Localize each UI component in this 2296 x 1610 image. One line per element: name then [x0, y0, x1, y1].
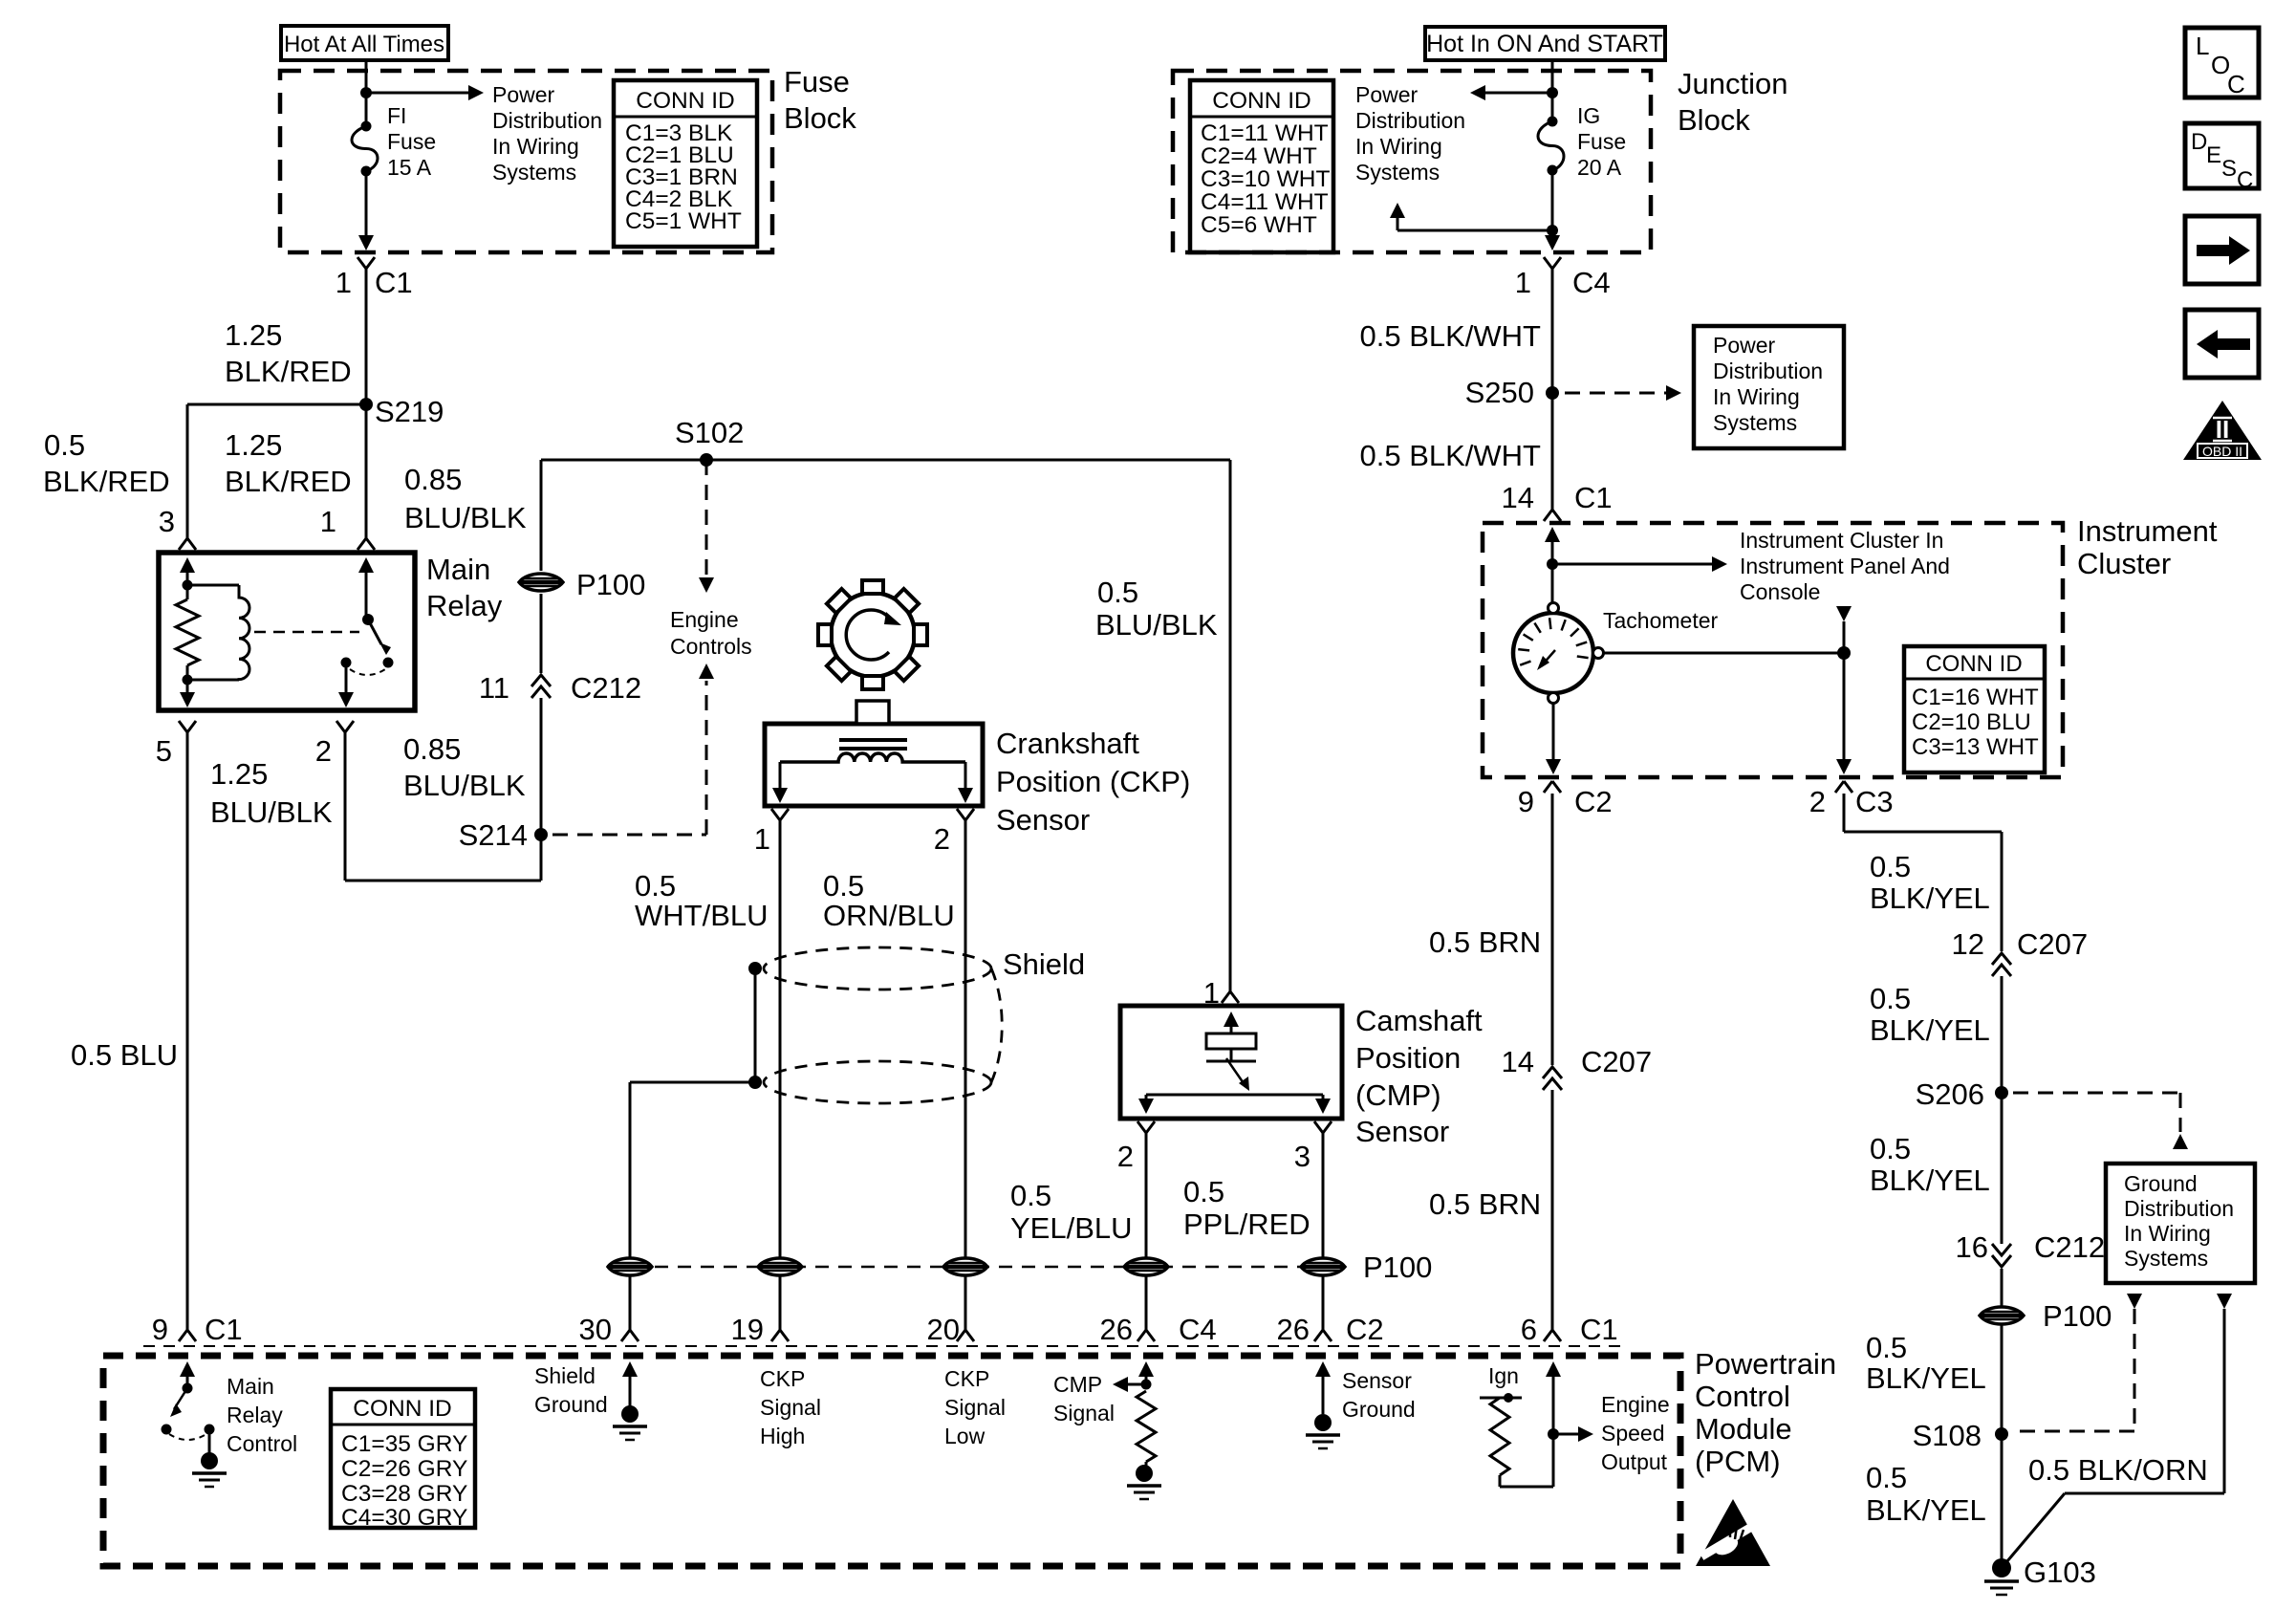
svg-text:Low: Low [944, 1424, 986, 1448]
CMP pin 2 connector [1117, 1121, 1155, 1173]
label 0.85 BLU/BLK (pin2) [403, 732, 526, 802]
svg-text:Module: Module [1695, 1412, 1792, 1446]
svg-text:0.5: 0.5 [1866, 1331, 1907, 1364]
wire - 1.25 BLK/RED from C1 to S219 [365, 269, 368, 404]
wire - 16 C212 to P100 [2001, 1269, 2004, 1306]
svg-text:0.5 BLK/ORN: 0.5 BLK/ORN [2028, 1453, 2208, 1487]
svg-text:In Wiring: In Wiring [492, 134, 579, 159]
svg-text:9: 9 [152, 1313, 168, 1346]
conn id table (PCM) [331, 1389, 475, 1531]
svg-text:0.5: 0.5 [1866, 1461, 1907, 1494]
label 0.85 BLU/BLK (upper) [404, 463, 527, 534]
svg-text:11: 11 [479, 671, 509, 705]
svg-text:C2: C2 [1346, 1313, 1384, 1346]
svg-text:CONN ID: CONN ID [1925, 651, 2022, 677]
wire - 0.85 BLU/BLK riser to S102 [540, 460, 543, 881]
inline connector P100 (CKP 2) [943, 1258, 987, 1275]
wire - 0.5 ORN/BLU CKP pin2 to PCM 20 [957, 820, 974, 1341]
svg-text:G103: G103 [2024, 1556, 2096, 1589]
tachometer needle [1537, 650, 1555, 670]
svg-text:26: 26 [1277, 1313, 1310, 1346]
svg-text:C1: C1 [375, 266, 413, 299]
svg-text:CONN ID: CONN ID [636, 88, 734, 114]
label Fuse Block [784, 65, 856, 135]
label "Hot At All Times" [281, 26, 448, 60]
svg-text:1.25: 1.25 [225, 428, 282, 462]
PCM CMP signal input [1113, 1361, 1154, 1392]
label Instrument Cluster [2077, 514, 2218, 580]
label pin 3 [159, 505, 175, 538]
svg-text:Sensor: Sensor [1355, 1115, 1449, 1148]
relay switch common (pin1) arm [358, 557, 374, 620]
svg-text:26: 26 [1100, 1313, 1133, 1346]
tachometer ticks [1518, 618, 1588, 665]
svg-text:BLK/RED: BLK/RED [225, 465, 352, 498]
icon right-arrow box [2185, 216, 2259, 284]
PCM sensor ground [1315, 1361, 1331, 1414]
svg-text:C4: C4 [1179, 1313, 1217, 1346]
svg-text:YEL/BLU: YEL/BLU [1010, 1211, 1133, 1245]
svg-text:Camshaft: Camshaft [1355, 1004, 1483, 1037]
svg-text:C5=1 WHT: C5=1 WHT [625, 208, 742, 234]
svg-text:0.5: 0.5 [1010, 1179, 1051, 1212]
wire - tach to 9 C2 [1546, 704, 1561, 774]
shield side dashed arc [991, 968, 1002, 1082]
svg-text:15 A: 15 A [387, 155, 432, 180]
PCM pin 9 C1 labels [152, 1313, 243, 1346]
wire - 0.85 BLU/BLK pin2 elbow [345, 732, 541, 881]
svg-text:0.85: 0.85 [404, 463, 462, 496]
svg-text:BLU/BLK: BLU/BLK [404, 501, 527, 534]
wire - 0.5 BLK/WHT C4 to 14 C1 [1544, 269, 1561, 521]
svg-text:Distribution: Distribution [1713, 359, 1823, 383]
PCM shield ground symbol [613, 1405, 647, 1440]
svg-text:BLK/RED: BLK/RED [225, 355, 352, 388]
node - junction block feed [1547, 87, 1558, 98]
label 0.5 BLK/YEL (2) [1870, 982, 1990, 1047]
svg-text:1: 1 [336, 266, 352, 299]
svg-text:CONN ID: CONN ID [1212, 88, 1310, 114]
wire - dashed S206 to ground distribution [2013, 1093, 2188, 1149]
label P100 (sensor harness) [1363, 1251, 1432, 1284]
connector pin 5 [156, 721, 196, 768]
svg-text:ORN/BLU: ORN/BLU [823, 899, 955, 932]
connector 14 C1 labels [1502, 481, 1613, 514]
svg-text:WHT/BLU: WHT/BLU [635, 899, 769, 932]
label 0.5 BLK/YEL (3) [1870, 1132, 1990, 1197]
svg-text:1.25: 1.25 [225, 318, 282, 352]
PCM pin 19 label [731, 1313, 764, 1346]
inline connector P100 (shield drain) [608, 1258, 652, 1275]
svg-text:0.5 BLK/WHT: 0.5 BLK/WHT [1360, 439, 1542, 472]
svg-text:2: 2 [934, 822, 950, 856]
svg-text:20: 20 [927, 1313, 960, 1346]
wire - tach right branch [1604, 652, 1844, 655]
relay resistor [176, 585, 199, 680]
label 0.5 BLK/YEL (5) [1866, 1461, 1986, 1527]
inline connector P100 (CMP 3) [1301, 1258, 1345, 1275]
wire - BLK/YEL to S206 [2001, 976, 2004, 1093]
P100 bulkhead dashed line [609, 1266, 1323, 1269]
wire - fuse to connector C1 [358, 171, 374, 250]
PCM pin 6 C1 labels [1521, 1313, 1618, 1346]
svg-text:D: D [2191, 129, 2207, 155]
label 0.5 BLK/WHT (lower) [1360, 439, 1542, 472]
PCM shield ground [622, 1361, 638, 1414]
svg-text:Tachometer: Tachometer [1603, 608, 1719, 633]
svg-text:14: 14 [1502, 1045, 1534, 1078]
node - shield tap lower [748, 1076, 762, 1089]
svg-text:0.5: 0.5 [823, 869, 864, 903]
conn id table (instrument cluster) [1904, 646, 2045, 772]
CMP bottom rail [1146, 1094, 1323, 1097]
svg-text:S214: S214 [459, 818, 528, 852]
PCM main relay control switch [162, 1361, 215, 1454]
svg-text:C4=11 WHT: C4=11 WHT [1201, 189, 1329, 215]
label Engine Controls [670, 607, 752, 659]
svg-text:3: 3 [1294, 1140, 1310, 1173]
svg-text:II: II [2216, 415, 2229, 444]
label 0.5 BLK/WHT (upper) [1360, 319, 1542, 353]
wire - branch arrow up inside junction block [1390, 203, 1552, 230]
CMP rail right arrow [1315, 1095, 1331, 1114]
wire - S108 to G103 [2001, 1434, 2004, 1568]
svg-text:C2: C2 [1574, 785, 1613, 818]
svg-text:C1=11 WHT: C1=11 WHT [1201, 120, 1329, 146]
svg-text:3: 3 [159, 505, 175, 538]
svg-text:19: 19 [731, 1313, 764, 1346]
svg-text:BLU/BLK: BLU/BLK [403, 769, 526, 802]
svg-text:BLU/BLK: BLU/BLK [1095, 608, 1218, 642]
label 0.5 WHT/BLU [635, 869, 769, 932]
svg-text:C1=16 WHT: C1=16 WHT [1912, 685, 2039, 710]
svg-text:C212: C212 [2034, 1230, 2105, 1264]
tachometer terminal bottom [1549, 693, 1559, 704]
svg-text:S108: S108 [1913, 1419, 1982, 1452]
svg-text:Hot At All Times: Hot At All Times [284, 32, 444, 57]
PCM connector face dashed line [143, 1345, 1625, 1347]
wire - cluster feed with up arrow [1545, 527, 1560, 603]
label 0.5 BRN (upper) [1429, 925, 1541, 959]
CMP element stem [1206, 1049, 1256, 1061]
svg-text:BLU/BLK: BLU/BLK [210, 795, 333, 829]
ground distribution box [2106, 1164, 2255, 1283]
relay coil [187, 585, 249, 680]
PCM main relay control ground [192, 1452, 227, 1487]
svg-text:16: 16 [1956, 1230, 1988, 1264]
svg-text:C2=4 WHT: C2=4 WHT [1201, 143, 1317, 169]
svg-text:Shield: Shield [1003, 947, 1085, 981]
svg-text:Power: Power [1355, 82, 1419, 107]
label 0.5 BLU/BLK (CMP feed) [1095, 576, 1218, 642]
svg-text:Position: Position [1355, 1041, 1461, 1075]
svg-text:BLK/YEL: BLK/YEL [1866, 1493, 1986, 1527]
node - fuse block feed junction [360, 87, 372, 98]
CMP hall element [1206, 1033, 1256, 1049]
label 0.5 ORN/BLU [823, 869, 955, 932]
svg-text:0.5 BLU: 0.5 BLU [71, 1038, 178, 1072]
tachometer gauge [1513, 613, 1593, 693]
svg-text:2: 2 [315, 734, 332, 768]
wire - dashed S250 to power distribution box [1565, 385, 1681, 401]
wire - feed arrow to power distribution (junction) [1470, 85, 1552, 100]
svg-text:Engine: Engine [670, 607, 739, 632]
svg-text:C4=30 GRY: C4=30 GRY [341, 1505, 467, 1531]
wire - 0.5 BLU/BLK down to CMP pin 1 [1222, 460, 1239, 1003]
label Tachometer [1603, 608, 1719, 633]
svg-text:BLK/YEL: BLK/YEL [1870, 881, 1990, 915]
label Camshaft Position (CMP) Sensor [1355, 1004, 1483, 1148]
svg-text:1: 1 [1203, 976, 1220, 1010]
svg-text:C3=28 GRY: C3=28 GRY [341, 1481, 467, 1507]
node - engine speed junction [1548, 1428, 1559, 1440]
label 0.5 BLK/ORN [2028, 1453, 2208, 1487]
label CKP Signal Low [944, 1366, 1006, 1448]
wire - BLK/YEL S206 to 16 C212 [2001, 1093, 2004, 1244]
svg-text:C212: C212 [571, 671, 641, 705]
svg-text:Systems: Systems [492, 160, 576, 185]
conn id table (fuse block) [614, 80, 757, 247]
svg-text:C3: C3 [1855, 785, 1894, 818]
CKP reluctor gear [818, 580, 927, 689]
svg-text:Ign: Ign [1488, 1363, 1519, 1388]
node S102 [675, 416, 744, 467]
svg-text:P100: P100 [576, 568, 645, 601]
svg-text:Main: Main [426, 553, 490, 586]
CKP lead 2 arrow [958, 762, 973, 803]
node S214 [459, 818, 548, 852]
svg-text:In Wiring: In Wiring [1355, 134, 1442, 159]
svg-text:C2=26 GRY: C2=26 GRY [341, 1456, 467, 1482]
svg-text:6: 6 [1521, 1313, 1537, 1346]
connector 11 C212 [479, 671, 641, 705]
PCM sensor ground symbol [1306, 1414, 1340, 1448]
PCM engine speed output riser [1546, 1361, 1561, 1487]
wire - dashed S214 to engine controls [552, 681, 706, 835]
svg-text:Signal: Signal [1053, 1401, 1115, 1425]
svg-text:Distribution: Distribution [2124, 1196, 2234, 1221]
CKP lead 1 arrow [772, 762, 788, 803]
svg-text:Instrument Panel And: Instrument Panel And [1740, 554, 1950, 578]
svg-text:S102: S102 [675, 416, 744, 449]
label 0.5 BLK/YEL (1) [1870, 850, 1990, 915]
arrow - engine controls up [699, 664, 714, 679]
shield lower dashed ellipse [764, 1061, 991, 1103]
wire - P100 to S108 [2001, 1325, 2004, 1434]
CKP pin 1 connector [754, 809, 789, 856]
connector 9 C2 [1518, 781, 1613, 818]
svg-text:C1: C1 [1574, 481, 1613, 514]
junction block dashed box [1173, 71, 1651, 252]
wire - right branch to 2 C3 [1836, 653, 1852, 774]
svg-text:Crankshaft: Crankshaft [996, 727, 1139, 760]
svg-text:Sensor: Sensor [1342, 1368, 1412, 1393]
inline connector P100 (CKP 1) [758, 1258, 802, 1275]
svg-text:Sensor: Sensor [996, 803, 1090, 837]
fuse FI 15A [352, 93, 436, 180]
svg-text:Output: Output [1601, 1449, 1668, 1474]
inline connector P100 (relay branch) [519, 568, 645, 601]
svg-text:Distribution: Distribution [1355, 108, 1465, 133]
PCM pin 26 C4 labels [1100, 1313, 1217, 1346]
wire - S102 horizontal bus [541, 459, 1230, 462]
PCM engine speed output arrow [1553, 1426, 1593, 1442]
PCM pin 26 C2 labels [1277, 1313, 1384, 1346]
PCM ign resistor lower lead [1500, 1475, 1553, 1487]
svg-text:FI: FI [387, 103, 406, 128]
PCM CMP pull resistor [1137, 1391, 1156, 1470]
node - cluster feed junction [1547, 558, 1558, 570]
wire - 0.5 BLU pin5 to PCM 9 C1 [179, 732, 196, 1341]
inline connector P100 (right) [1980, 1299, 2112, 1333]
relay switch output (pin2) arrow down [338, 663, 354, 707]
relay switch arm with arrow [368, 620, 391, 655]
node - coil bottom [183, 675, 193, 685]
fuse block dashed box [280, 71, 772, 252]
svg-text:Systems: Systems [1355, 160, 1440, 185]
connector 16 C212 [1956, 1230, 2106, 1267]
svg-text:P100: P100 [1363, 1251, 1432, 1284]
ground G103 [1984, 1556, 2096, 1595]
connector pin 1 C1 (fuse block) [336, 257, 413, 299]
icon LOC box [2185, 28, 2259, 98]
svg-text:Fuse: Fuse [1577, 129, 1626, 154]
power distribution box (right) [1694, 326, 1844, 448]
svg-text:C: C [2237, 167, 2253, 193]
svg-text:C2=10 BLU: C2=10 BLU [1912, 709, 2031, 735]
svg-text:Relay: Relay [426, 589, 503, 622]
svg-text:C3=10 WHT: C3=10 WHT [1201, 166, 1331, 192]
svg-text:C1: C1 [205, 1313, 243, 1346]
label Crankshaft Position (CKP) Sensor [996, 727, 1190, 837]
svg-text:Systems: Systems [1713, 410, 1797, 435]
svg-text:Ground: Ground [2124, 1171, 2198, 1196]
svg-text:C1: C1 [1580, 1313, 1618, 1346]
label Shield [1003, 947, 1085, 981]
svg-text:2: 2 [1809, 785, 1826, 818]
svg-text:(PCM): (PCM) [1695, 1445, 1781, 1478]
label 0.5 BRN (lower) [1429, 1187, 1541, 1221]
label Engine Speed Output [1601, 1392, 1670, 1474]
svg-text:0.5: 0.5 [1870, 1132, 1911, 1165]
PCM ign resistor [1490, 1398, 1509, 1475]
svg-text:0.5: 0.5 [635, 869, 676, 903]
label Instrument Cluster In Instrument Panel And Console [1740, 528, 1950, 604]
icon OBD II triangle [2183, 401, 2262, 460]
label Ign [1488, 1363, 1519, 1388]
label pin 1 [320, 505, 336, 538]
svg-text:IG: IG [1577, 103, 1600, 128]
svg-text:20 A: 20 A [1577, 155, 1622, 180]
fuse IG 20A [1538, 93, 1626, 180]
svg-text:Block: Block [784, 101, 856, 135]
connector 14 C207 [1502, 1045, 1653, 1090]
instrument cluster dashed box [1483, 523, 2063, 777]
wire - S219 down to relay pin 1 [357, 404, 375, 550]
conn id table (junction block) [1190, 80, 1333, 252]
svg-text:C5=6 WHT: C5=6 WHT [1201, 212, 1317, 238]
svg-text:Signal: Signal [760, 1395, 821, 1420]
wire - hot feed into fuse block [365, 60, 368, 93]
node - shield tap upper [748, 962, 762, 975]
svg-text:5: 5 [156, 734, 172, 768]
svg-text:CKP: CKP [760, 1366, 805, 1391]
label 0.5 BLU [71, 1038, 178, 1072]
svg-text:In Wiring: In Wiring [1713, 384, 1800, 409]
svg-text:Fuse: Fuse [784, 65, 850, 98]
label 0.5 PPL/RED [1183, 1175, 1310, 1241]
svg-text:0.5 BRN: 0.5 BRN [1429, 1187, 1541, 1221]
svg-text:Power: Power [1713, 333, 1776, 358]
PCM CMP resistor ground [1127, 1465, 1161, 1499]
label Shield Ground [534, 1363, 608, 1417]
CMP pin 3 connector [1294, 1121, 1332, 1173]
svg-text:CMP: CMP [1053, 1372, 1102, 1397]
svg-text:(CMP): (CMP) [1355, 1078, 1441, 1112]
svg-text:BLK/YEL: BLK/YEL [1866, 1361, 1986, 1395]
relay dashed actuator link [254, 631, 359, 634]
label Power Distribution In Wiring Systems (fuse block) [492, 82, 602, 185]
shield upper dashed ellipse [764, 947, 991, 990]
svg-text:C: C [2227, 70, 2245, 98]
svg-text:9: 9 [1518, 785, 1534, 818]
svg-text:12: 12 [1952, 927, 1984, 961]
wire - shield drain to PCM 30 [621, 1082, 755, 1341]
svg-text:E: E [2206, 142, 2221, 168]
node - switch pivot [362, 614, 374, 625]
svg-text:Console: Console [1740, 579, 1820, 604]
svg-text:0.5: 0.5 [44, 428, 85, 462]
svg-text:Signal: Signal [944, 1395, 1006, 1420]
PCM pin 20 label [927, 1313, 960, 1346]
svg-text:Junction: Junction [1678, 67, 1787, 100]
CKP pickup coil [780, 753, 965, 762]
node - junction lower splice [1547, 225, 1558, 236]
svg-text:2: 2 [1117, 1140, 1134, 1173]
svg-text:PPL/RED: PPL/RED [1183, 1207, 1310, 1241]
svg-text:Position (CKP): Position (CKP) [996, 765, 1190, 798]
icon DESC box [2185, 123, 2259, 193]
svg-text:S206: S206 [1916, 1077, 1984, 1111]
connector pin 2 [315, 721, 354, 768]
svg-text:BLK/RED: BLK/RED [43, 465, 170, 498]
svg-text:Ground: Ground [1342, 1397, 1416, 1422]
wire - 0.5 BLK/ORN ground-dist to G103 [2002, 1294, 2232, 1568]
CKP sensor mounting tab [856, 701, 889, 724]
relay coil out (pin5) arrow down [180, 680, 195, 707]
wire - arrow to instrument cluster note [1552, 556, 1727, 572]
CKP pin 2 connector [934, 809, 974, 856]
svg-text:Main: Main [227, 1374, 274, 1399]
tachometer terminal right [1593, 648, 1604, 659]
svg-text:In Wiring: In Wiring [2124, 1221, 2211, 1246]
node S206 [1916, 1077, 2008, 1111]
PCM pin 30 label [579, 1313, 612, 1346]
label 1.25 BLK/RED (upper) [225, 318, 352, 388]
svg-text:0.85: 0.85 [403, 732, 461, 766]
CKP core lines [839, 740, 907, 749]
CMP rail left arrow [1138, 1095, 1154, 1114]
wire - feed arrow to power distribution [366, 85, 484, 100]
svg-text:OBD II: OBD II [2202, 444, 2242, 459]
svg-text:0.5: 0.5 [1183, 1175, 1224, 1208]
node S250 [1465, 376, 1559, 409]
wire - 0.5 WHT/BLU CKP pin1 to PCM 19 [771, 820, 789, 1341]
svg-text:14: 14 [1502, 481, 1534, 514]
svg-text:Fuse: Fuse [387, 129, 436, 154]
svg-text:Relay: Relay [227, 1403, 283, 1427]
wire - 0.5 YEL/BLU CMP pin2 to PCM 26 C4 [1137, 1133, 1155, 1341]
